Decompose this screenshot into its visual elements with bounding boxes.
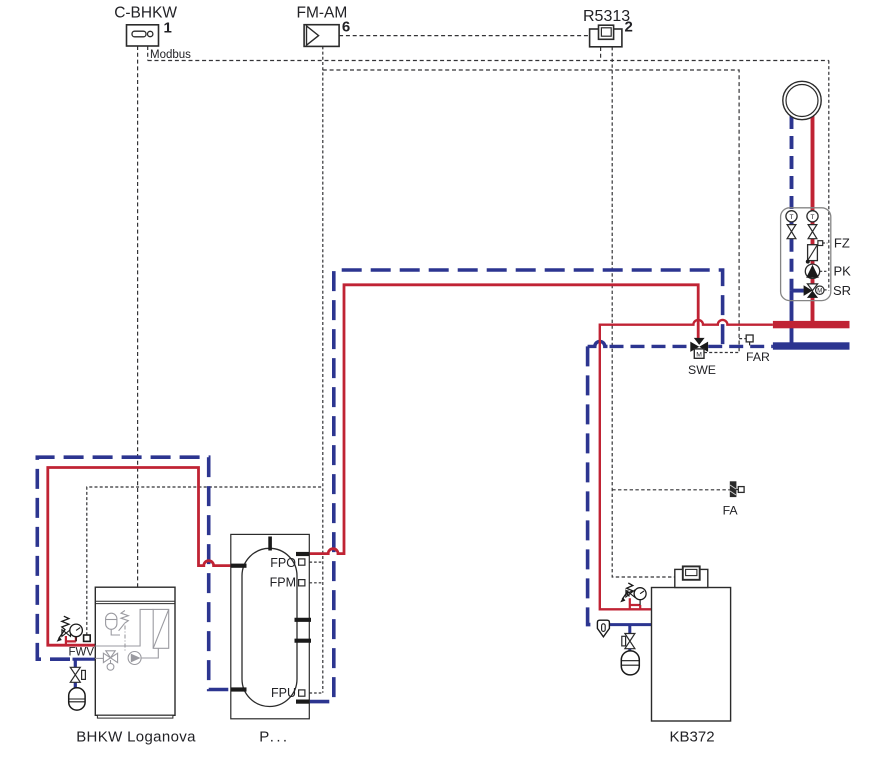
pipe KB372 expansion stub (628, 625, 631, 651)
svg-text:SR: SR (833, 283, 851, 298)
safety valve body KB372 (626, 590, 635, 597)
pipe valve to regulating valve (FZ tap) (811, 239, 815, 245)
sensor FPO (299, 559, 305, 565)
pipe KB372 flow with bridges to red bar (600, 320, 773, 609)
mixing valve SR (804, 284, 824, 298)
svg-text:FPO: FPO (270, 556, 296, 570)
sensor FA (outdoor, on wall) (730, 481, 744, 497)
valve on return (bowtie) (787, 225, 796, 239)
svg-text:6: 6 (342, 19, 350, 36)
wire FPO connector (305, 561, 323, 563)
pipe KB372 return solid (609, 623, 651, 626)
pipe return loop BHKW (dashed rectangle) (37, 457, 231, 689)
pipe stub thermometer to valve (blue) (790, 222, 794, 225)
svg-text:Modbus: Modbus (150, 49, 191, 61)
pipe BHKW safety group stub (66, 636, 76, 645)
pipe BHKW return solid into unit (73, 658, 96, 661)
manifold blue bar (773, 342, 850, 349)
wire R5313 to KB372 burner (x=612.2) (612, 47, 675, 577)
controller R5313 box (590, 25, 622, 47)
expansion vessel KB372 (621, 651, 639, 675)
safety valve body BHKW (62, 630, 71, 637)
boiler flue/burner box (675, 566, 708, 587)
svg-text:T: T (811, 214, 815, 221)
safety valve BHKW (spring + blowoff arrow) (59, 616, 69, 638)
wire R5313 stub to bus (600, 47, 602, 61)
pipe group return valve to corner (790, 239, 794, 291)
wire bus drop to heating circuit group (x=828.8) (828, 61, 830, 291)
tank connection stubs (231, 554, 311, 702)
shutoff valve BHKW (70, 667, 85, 682)
wire FPU connector (305, 692, 323, 694)
wire Modbus bus horizontal y=59.5 (148, 60, 829, 62)
controller C-BHKW box (127, 25, 159, 46)
svg-text:FZ: FZ (834, 236, 850, 251)
svg-text:FPM: FPM (270, 576, 296, 590)
wire FM-AM to R5313 (339, 35, 589, 37)
svg-text:R5313: R5313 (583, 8, 630, 25)
pipe return tank bottom-right to manifold (via y=270) (309, 270, 722, 702)
tank vent stub (268, 537, 272, 551)
pipe BHKW flow loop to tank top-left (48, 468, 231, 646)
dirt separator (funnel) (597, 620, 609, 637)
svg-text:SWE: SWE (688, 363, 716, 377)
safety valve KB372 (622, 583, 633, 599)
heating circuit group frame (781, 208, 831, 301)
pipe SR valve down to red bar (811, 297, 815, 322)
svg-text:KB372: KB372 (670, 728, 715, 745)
sensor FPU (299, 690, 305, 696)
wire FPM connector (305, 582, 323, 584)
wire SWE motor connector (704, 352, 739, 354)
sensor FAR (746, 335, 753, 345)
svg-text:1: 1 (164, 20, 172, 37)
pipe heating circuit flow (circle to group) (811, 116, 815, 211)
pipe tank top to SWE valve (309, 285, 698, 554)
sensor FPM (299, 580, 305, 586)
wire branch y=70 to SWE/FAR (323, 70, 739, 353)
tank vessel capsule (242, 548, 297, 706)
pipe stub thermometer to valve (red) (811, 222, 815, 225)
valve on flow (bowtie) (808, 225, 817, 239)
boiler KB372 body (652, 588, 731, 722)
svg-text:PK: PK (834, 263, 852, 278)
thermometer on return (786, 211, 797, 222)
pump PK (805, 264, 819, 278)
pipe return down to KB372 (588, 346, 598, 624)
pipe group corner into SR valve (792, 289, 804, 293)
sensor FZ square (818, 241, 823, 246)
svg-text:FAR: FAR (746, 350, 770, 364)
svg-text:FM-AM: FM-AM (297, 5, 348, 22)
wire FAR connector (739, 338, 746, 340)
svg-text:T: T (790, 214, 794, 221)
thermometer on flow (807, 211, 818, 222)
valve SWE (3-way with motor) (690, 338, 708, 359)
tank module frame (231, 534, 309, 718)
expansion vessel BHKW (69, 688, 85, 710)
BHKW cabinet (95, 587, 175, 718)
pipe group return down to blue bar (under red bar) (790, 291, 794, 343)
wire PK connector (820, 270, 828, 272)
svg-text:BHKW Loganova: BHKW Loganova (76, 728, 196, 745)
wire C-BHKW to Modbus bus (stub x=147.7) (147, 46, 149, 61)
pipe KB372 safety group stub (630, 598, 640, 609)
pipe pump to SR valve (811, 278, 815, 284)
BHKW internal pump (128, 652, 141, 665)
svg-text:P...: P... (259, 729, 289, 746)
svg-text:2: 2 (625, 19, 633, 36)
pipe BHKW expansion stub (74, 659, 77, 688)
pipe return dashed segment to SWE (610, 345, 691, 348)
pressure gauge BHKW (70, 624, 83, 641)
pipe return manifold horizontal y=346.4 with bridge over boiler flow (588, 341, 608, 346)
BHKW internals (gray) (95, 609, 168, 670)
sensor FWV (84, 635, 91, 641)
module FM-AM box (304, 25, 339, 47)
pipe regulating valve to pump (811, 261, 815, 265)
wire FM-AM to tank sensors (vertical x=322.8) (322, 46, 324, 692)
svg-text:FA: FA (723, 503, 739, 517)
pipe return from SWE to blue manifold bar (708, 345, 773, 348)
svg-text:M: M (817, 288, 822, 294)
pressure gauge KB372 (634, 588, 646, 605)
manifold red bar (773, 321, 850, 328)
node heating circuit consumer circle (783, 81, 821, 119)
wire SR connector (824, 289, 827, 291)
wire C-BHKW to BHKW unit (vertical drop x=137.6) (137, 46, 139, 587)
wire FWV sensor to FM-AM line (87, 487, 323, 635)
svg-text:FWV: FWV (69, 647, 95, 659)
pipe heating circuit return (circle to group) (790, 116, 794, 211)
regulating valve (806, 245, 818, 264)
wire branch to FA outdoor sensor (612, 489, 730, 491)
shutoff valve KB372 (622, 634, 635, 649)
wire FZ connector (823, 242, 828, 244)
svg-text:M: M (696, 352, 702, 359)
svg-text:FPU: FPU (271, 686, 296, 700)
